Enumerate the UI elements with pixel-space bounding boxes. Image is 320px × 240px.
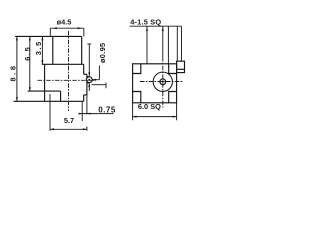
svg-text:5.7: 5.7 [64, 116, 74, 125]
svg-text:3.5: 3.5 [34, 40, 43, 55]
svg-text:6.5: 6.5 [23, 46, 32, 61]
svg-text:ø0.95: ø0.95 [98, 43, 107, 63]
svg-text:0.75: 0.75 [98, 105, 116, 114]
svg-text:8.8: 8.8 [8, 63, 17, 81]
svg-text:4-1.5 SQ: 4-1.5 SQ [130, 18, 161, 27]
svg-text:ø4.5: ø4.5 [57, 17, 72, 26]
svg-text:6.0 SQ: 6.0 SQ [138, 102, 161, 111]
